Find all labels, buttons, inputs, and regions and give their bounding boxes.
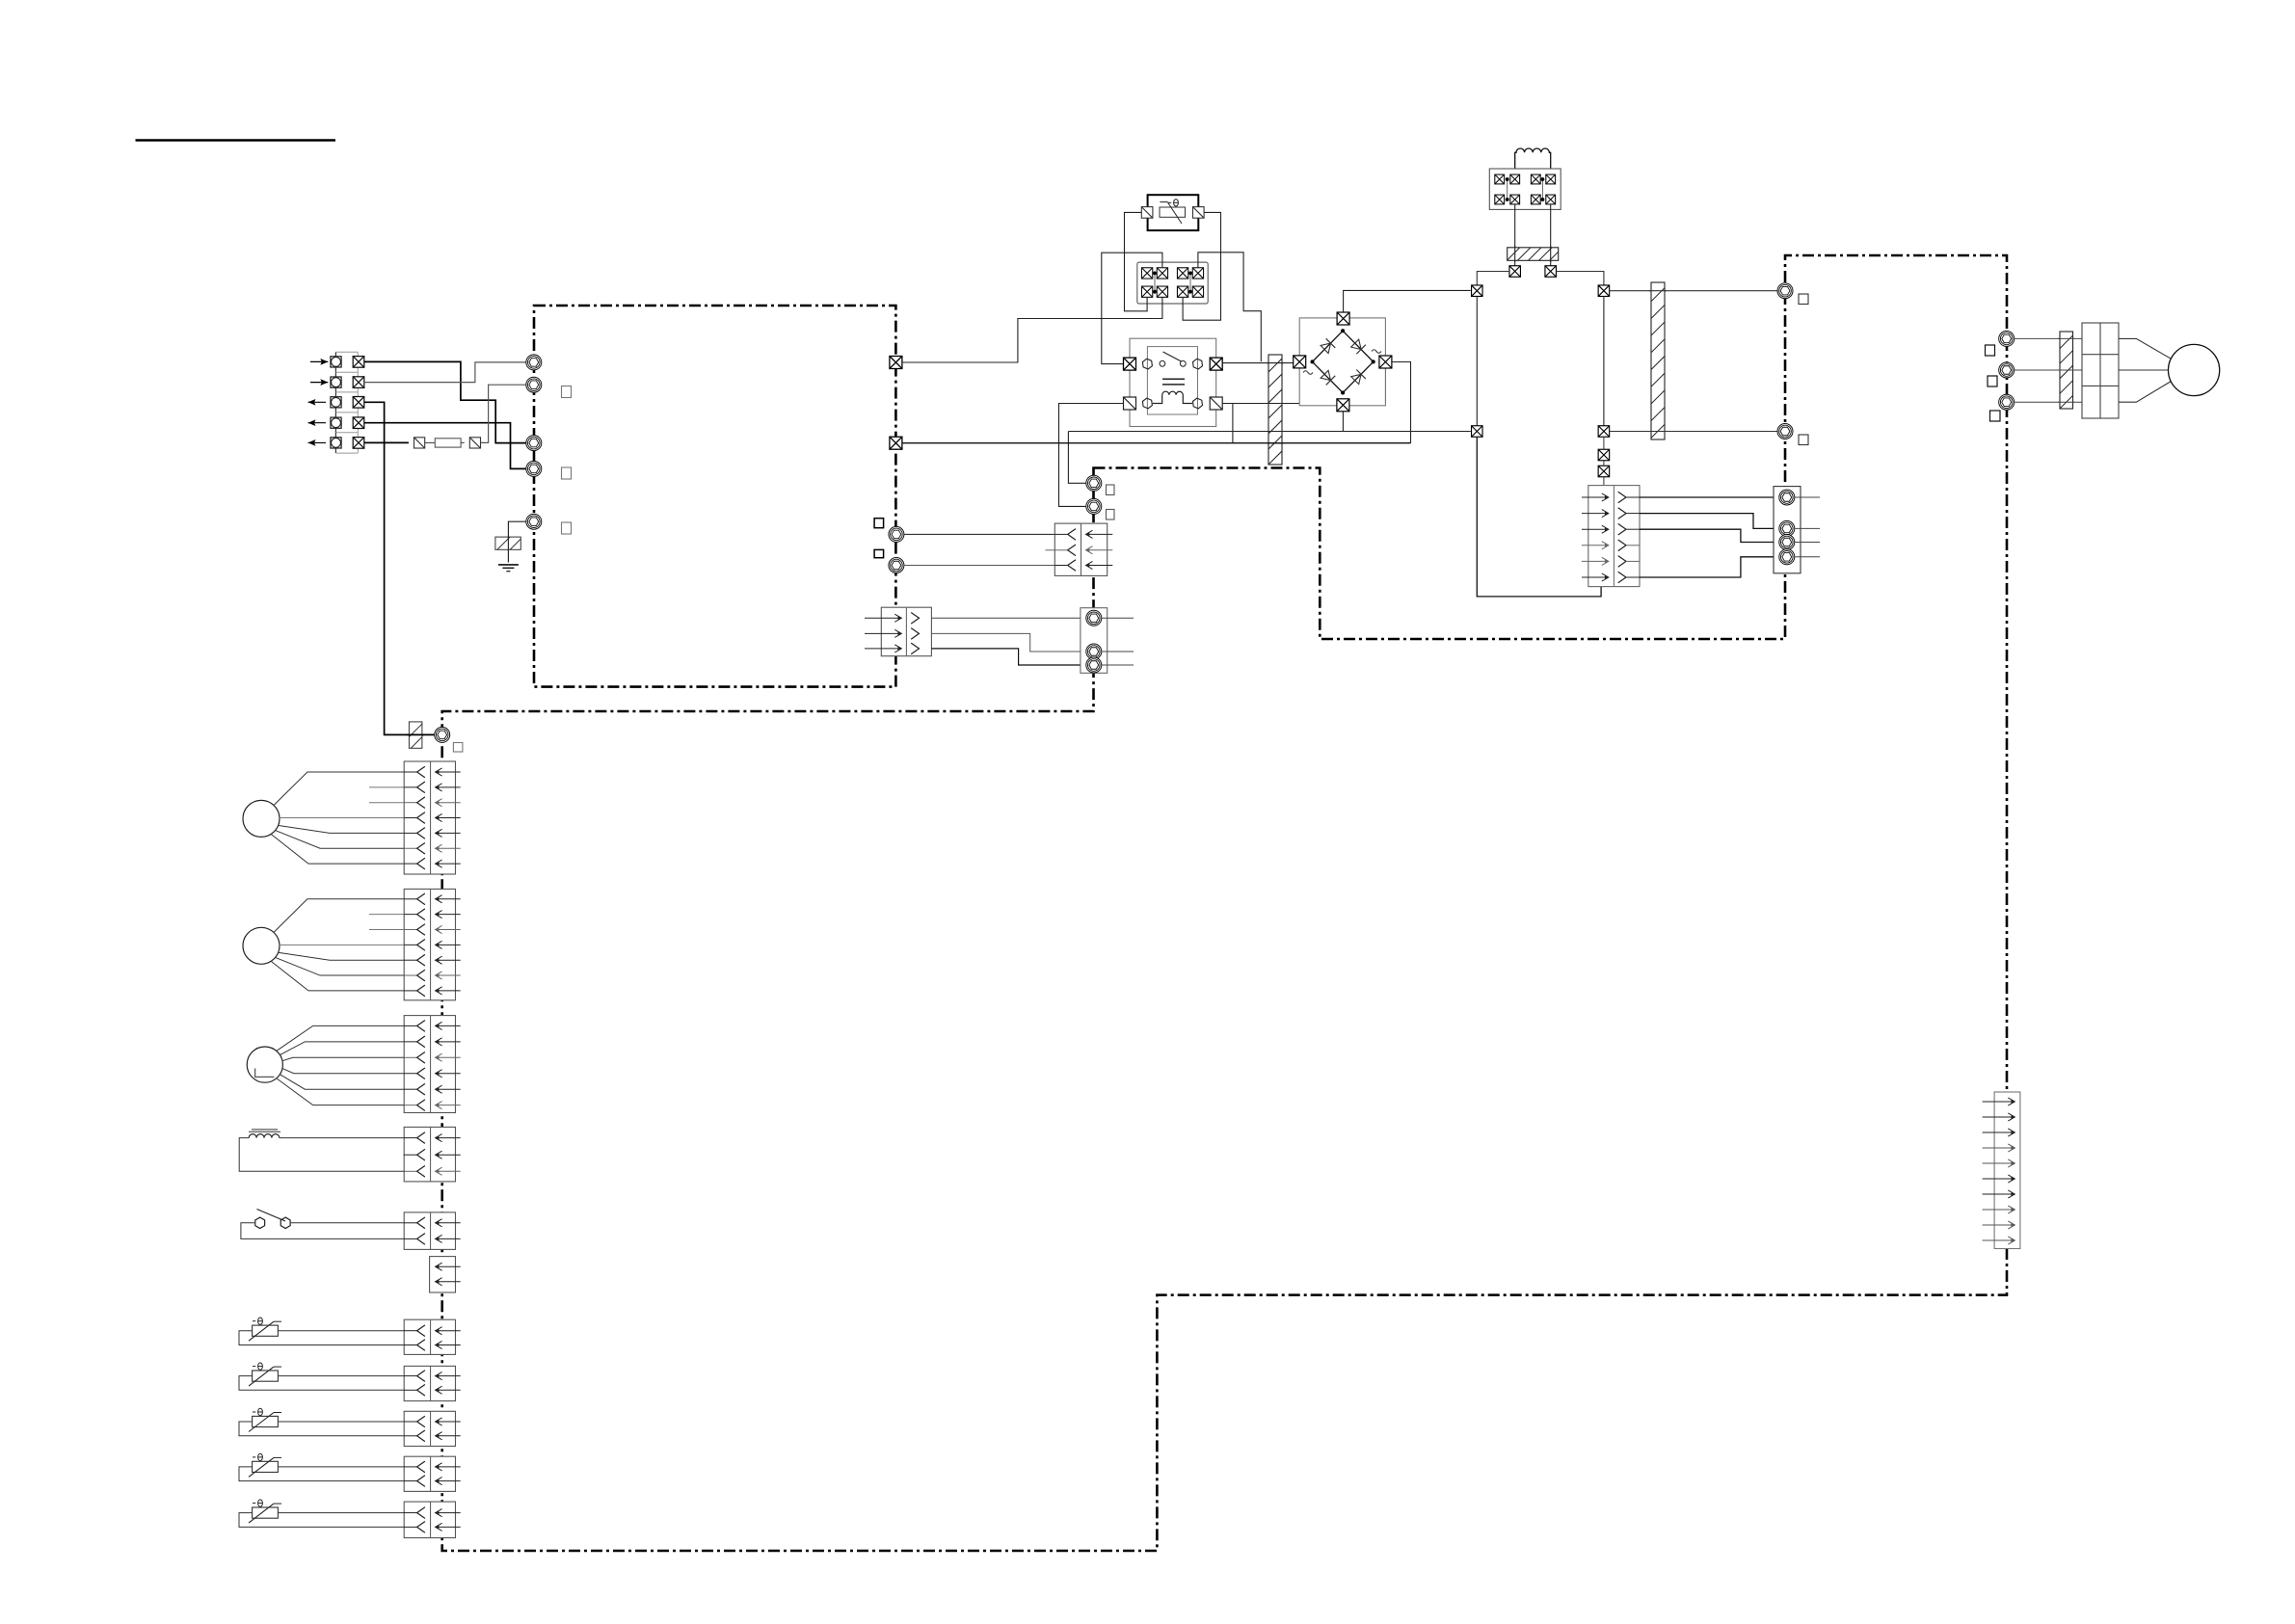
wire crossing barrier: [1267, 362, 1284, 364]
contact link: [1189, 273, 1191, 291]
PCB1 connector CN-L3 (hex): [526, 436, 542, 451]
wire: CN-C row3 to hex block: [931, 649, 1086, 665]
RY1 coil terminal left: [1124, 397, 1136, 410]
arrow: line out 1: [308, 401, 327, 403]
X-terminal node left: [1472, 285, 1483, 297]
wire: RB1 col2 bottom to PCB1 T1: [902, 297, 1162, 362]
connector CN-R (10-pin): [1994, 1092, 2020, 1249]
RY1 coil: [1153, 391, 1192, 403]
bridge diode D4: [1351, 374, 1361, 384]
wire: CN-A to PCB2 block row1: [904, 533, 1056, 535]
RY1 coil terminal right: [1210, 397, 1222, 410]
wire: hex U to terminal block: [2015, 337, 2082, 339]
wire: bridge E to DC+ node: [1392, 362, 1411, 443]
RY1 core lines: [1162, 378, 1185, 380]
wire: PM row2 to hex F2: [1640, 514, 1779, 529]
fuse F1 lead square left: [414, 438, 425, 448]
wire: PRB col2 down through barrier: [1514, 205, 1516, 266]
fan motor M1: [243, 800, 280, 837]
pin label V: [1988, 376, 1997, 386]
relay contact X: [1192, 268, 1203, 279]
thermistor TH4: [253, 1461, 279, 1472]
wire: earth connector to ground: [508, 521, 526, 562]
hex F1: [1779, 490, 1795, 505]
outdoor box entry hex connector: [435, 727, 450, 742]
X-terminal DC right: [1598, 426, 1610, 438]
wire: RY1 coil right branch down to DC bus: [1232, 404, 1234, 443]
terminal block TB1 (power supply terminals): [334, 352, 336, 453]
relay RY1 outer box: [1130, 338, 1216, 426]
PCB1 pin square P1 (solid): [874, 519, 884, 528]
PRB contact X: [1495, 174, 1505, 184]
wire: fuse link right: [461, 441, 465, 443]
connector CN-TH5 (2-pin): [404, 1502, 455, 1538]
wire: node left column down: [1476, 297, 1478, 426]
thermistor TH5: [253, 1507, 279, 1518]
wires: fan motor M2 to CN-FAN2: [274, 899, 404, 933]
connector CN-X (2-pin, right half): [430, 1257, 456, 1292]
thermostat lead square right: [1193, 207, 1205, 219]
wire crossing earth barrier: [507, 536, 509, 550]
bridge terminal W: [1294, 356, 1306, 368]
wire: thermistor TH3 to row2: [239, 1422, 404, 1436]
stub: CN-D row2: [1046, 549, 1055, 551]
wire: left X to node column: [1477, 272, 1509, 286]
thermistor element inside thermostat: [1160, 207, 1186, 217]
PCB1 pin label box 2: [562, 467, 572, 479]
wire: right X to node column: [1556, 272, 1604, 286]
X-terminal node right: [1598, 285, 1610, 297]
fuse F1 body: [435, 439, 461, 447]
X-terminal DC+ left: [1472, 426, 1483, 438]
ground symbol: [498, 564, 519, 566]
PCB1 connector CN-B (hex): [889, 558, 904, 573]
fan motor M2: [243, 927, 280, 964]
X-terminal chain 2: [1598, 449, 1610, 461]
wire: pressure switch to CN-SW row1: [291, 1222, 404, 1224]
wire crossing entry barrier: [407, 733, 424, 735]
wire: fuse link left: [425, 441, 436, 443]
wire: bridge S down to DC- rail: [1342, 412, 1344, 432]
wires crossing barrier: [2058, 337, 2074, 339]
wire: terminal row2 to PCB1 hex L1: [364, 362, 526, 383]
relay contact X: [1141, 268, 1152, 279]
compressor hex V: [1999, 362, 2015, 378]
PRB contact link: [1541, 179, 1543, 200]
arrow: line out 3: [308, 441, 327, 443]
wire: thermistor TH4 to row2: [239, 1467, 404, 1481]
connector CN-PUMP (6-pin): [404, 1016, 455, 1113]
relay contact bank RB1: [1137, 262, 1208, 304]
wires crossing barrier: [1649, 290, 1667, 292]
pin label box G2: [1799, 435, 1808, 445]
PRB contact X: [1510, 195, 1520, 204]
connector CN-SOL (3-pin): [404, 1127, 455, 1182]
bridge terminal N: [1337, 312, 1349, 325]
PCB1 3-way connector block CN-C: [881, 607, 931, 656]
pin label box G1: [1799, 294, 1808, 305]
PCB1 pin square P2 (solid): [874, 549, 884, 557]
PCB1 connector CN-A (hex): [889, 526, 904, 542]
PRB contact X: [1546, 195, 1556, 204]
PCB1 indoor control board outline (dash-dot): [534, 306, 895, 687]
wire: CN-B to PCB2 block row3: [904, 565, 1056, 567]
PCB2 connector hex D1: [1086, 475, 1102, 491]
wire: CN-C row1 to hex block: [931, 617, 1086, 619]
PCB1 connector CN-L1 (hex): [526, 355, 542, 370]
bridge AC tilde right: [1372, 350, 1381, 354]
PCB1 output X-terminal T2: [890, 437, 902, 449]
PCB2 3-way connector block CN-D: [1054, 523, 1107, 575]
connector CN-SW (2-pin): [404, 1212, 455, 1250]
wire: terminal to compressor U: [2119, 338, 2172, 359]
wire: RB1 col3 bottom to thermostat right: [1183, 212, 1220, 320]
wire: CN-C row2 to hex block: [931, 633, 1086, 652]
PRB contact X: [1495, 195, 1505, 204]
wire: thermistor TH2 to row1: [278, 1375, 404, 1377]
RY1 contact pin left (octagon): [1142, 359, 1152, 369]
wire: PCB1 T2 DC bus W2: [902, 442, 1411, 444]
wire: hex V to terminal block: [2015, 369, 2082, 371]
wire: thermistor TH2 to row2: [239, 1376, 404, 1391]
wire: bridge N up to relay bank node: [1344, 290, 1471, 312]
PCB1 connector CN-L2 (hex): [526, 377, 542, 392]
PRB contact X: [1531, 174, 1540, 184]
outdoor thermostat box (bold): [1148, 195, 1199, 230]
wire: DC+ left down to module: [1477, 437, 1601, 597]
PCB1 connector CN-L4 (hex): [526, 461, 542, 476]
hex E2: [1086, 644, 1102, 659]
solenoid core lines: [252, 1129, 278, 1131]
wires crossing PRB barrier: [1514, 246, 1516, 262]
PRB contact X: [1546, 174, 1556, 184]
PCB1 earth connector (hex): [526, 514, 542, 529]
thermistor TH3: [253, 1416, 279, 1426]
wire: RY1 contact right to bridge AC input: [1222, 362, 1294, 364]
wire: PM row3 to hex F3: [1640, 529, 1779, 542]
wire: RY1 coil right to bridge + node: [1222, 368, 1385, 404]
relay contact X: [1157, 268, 1167, 279]
fan box connector block (4 hex): [1774, 487, 1801, 573]
RY1 coil pin left (octagon): [1142, 398, 1152, 409]
thermistor TH1: [253, 1325, 279, 1336]
wire: thermistor TH3 to row1: [278, 1421, 404, 1423]
RY1 switch arm: [1163, 352, 1182, 361]
title underline: [136, 139, 336, 141]
contact link: [1154, 273, 1156, 291]
PCB1 pin label box 3: [562, 522, 572, 534]
wire: pressure switch to CN-SW row2: [241, 1223, 404, 1239]
wire: terminal to compressor W: [2119, 382, 2172, 403]
wire: RB1 col1 bottom to thermostat left: [1125, 212, 1148, 310]
arrow: line out 2: [308, 422, 327, 424]
compressor hex U: [1999, 331, 2015, 346]
wire: chain links: [1603, 437, 1605, 449]
reactor L1 coil: [1515, 148, 1551, 174]
connector CN-TH2 (2-pin): [404, 1366, 455, 1400]
wire: terminal row3 down to outdoor box hex: [364, 402, 435, 734]
wire: RB1 col4 top to bridge input: [1198, 253, 1261, 361]
arrow: supply line in (N): [310, 382, 328, 384]
connector CN-TH1 (2-pin): [404, 1319, 455, 1354]
solenoid valve coil SV: [249, 1134, 280, 1138]
PCB2 pin label box D1: [1107, 485, 1115, 495]
connector CN-FAN1 (7-pin): [404, 761, 455, 874]
bridge diode D2: [1351, 339, 1361, 349]
RY1 contact terminal right: [1210, 358, 1222, 370]
relay contact X: [1177, 268, 1188, 279]
wire: fuse output to PCB1 hex L2: [481, 385, 526, 442]
PRB contact link: [1507, 179, 1508, 200]
X-terminal under barrier left: [1509, 266, 1521, 278]
power module connector PM (6-pin): [1588, 486, 1640, 587]
wire: PM row6 to hex F4: [1640, 557, 1779, 577]
RY1 coil pin right (octagon): [1193, 398, 1203, 409]
bridge terminal S: [1337, 399, 1349, 412]
wire: terminal row5 to fuse: [364, 441, 409, 443]
PCB2 connector hex D2: [1086, 498, 1102, 514]
relay contact X: [1141, 286, 1152, 297]
wires: pump motor M3 to CN-PUMP: [277, 1025, 405, 1051]
PCB1 output X-terminal T1: [890, 357, 902, 369]
wire: thermistor TH5 to row1: [278, 1512, 404, 1514]
PCB2 pin label box D2: [1107, 510, 1115, 520]
bridge terminal E: [1379, 356, 1392, 368]
wire: thermistor TH1 to row1: [278, 1330, 404, 1332]
compressor motor MC: [2169, 344, 2220, 395]
wire: thermistor TH4 to row1: [278, 1466, 404, 1468]
hex E3: [1086, 657, 1102, 673]
wire: thermistor TH1 to row2: [239, 1331, 404, 1345]
wire: thermistor TH5 to row2: [239, 1513, 404, 1528]
wire: solenoid to CN-SOL row1: [280, 1137, 404, 1139]
bridge diamond: [1313, 331, 1374, 392]
hex F3: [1779, 535, 1795, 550]
pin label W: [1990, 411, 2001, 421]
outdoor unit boundary (dash-dot polygon): [442, 255, 2007, 1551]
hex F4: [1779, 549, 1795, 565]
relay contact X: [1157, 286, 1167, 297]
thermistor TH2: [253, 1371, 279, 1381]
bridge diode D3: [1321, 370, 1330, 380]
PRB contact X: [1510, 174, 1520, 184]
power relay bank PRB box: [1489, 169, 1561, 209]
connector CN-TH3 (2-pin): [404, 1411, 455, 1446]
wire: RY1 coil left to PCB2 hex D2: [1059, 404, 1124, 507]
wire: RB1 col2 top to relay RY1 left contact: [1102, 253, 1162, 363]
RY1 contact pin right (octagon): [1193, 359, 1203, 369]
fuse F1 lead square right: [469, 438, 480, 448]
bridge diode D1: [1321, 343, 1330, 353]
wires: fan motor M1 to CN-FAN1: [274, 772, 404, 806]
PRB contact X: [1531, 195, 1540, 204]
diode bridge DB1 box: [1299, 318, 1385, 406]
PCB1 pin label box 1: [562, 386, 572, 398]
wire: terminal to compressor V: [2119, 369, 2169, 371]
wire: hex W to terminal block: [2015, 401, 2082, 403]
hex F2: [1779, 520, 1795, 536]
arrow: supply line in (L): [310, 360, 328, 362]
PCB2 3-hex connector block CN-E: [1081, 608, 1107, 674]
wire: PM row1 to hex F1: [1640, 496, 1779, 498]
compressor hex W: [1999, 394, 2015, 410]
wire: terminal row1 to PCB1 hex L3: [364, 361, 526, 442]
pressure switch PS: [255, 1217, 265, 1228]
X-terminal chain 3: [1598, 466, 1610, 477]
wire: W1 down to PCB2 hex D1: [1068, 432, 1086, 484]
wire: node right column down: [1603, 297, 1605, 426]
wire: node right to outdoor fan box hex: [1610, 290, 1777, 292]
thermostat lead square left: [1141, 207, 1153, 219]
wire: right X to box hex 2: [1610, 431, 1777, 433]
connector CN-TH4 (2-pin): [404, 1456, 455, 1491]
relay contact X: [1177, 286, 1188, 297]
wire: PRB col4 down through barrier: [1550, 205, 1552, 266]
compressor terminal block: [2082, 323, 2119, 418]
wire: terminal row4 to PCB1 hex L4: [364, 423, 526, 469]
outdoor fan box hex G1: [1777, 283, 1793, 299]
outdoor pin label box: [453, 743, 463, 753]
pump motor M3: [247, 1047, 282, 1082]
outdoor fan box hex G2: [1777, 424, 1793, 439]
X-terminal under barrier right: [1545, 266, 1557, 278]
wire: solenoid loop to CN-SOL row3: [239, 1138, 404, 1172]
connector CN-FAN2 (7-pin): [404, 889, 455, 999]
stubs right of CN-E: [1102, 617, 1134, 619]
relay contact X: [1192, 286, 1203, 297]
RY1 contact terminal left: [1124, 358, 1136, 370]
bridge AC tilde left: [1303, 371, 1313, 375]
hex E1: [1086, 610, 1102, 626]
pin label U: [1986, 345, 1995, 356]
wire: DC- rail W1: [1068, 431, 1470, 433]
relay RY1 inner box: [1147, 347, 1197, 414]
